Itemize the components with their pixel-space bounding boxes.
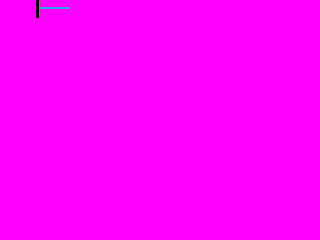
cursor edge tick lower [39,12,40,15]
cursor edge tick upper [39,2,40,5]
cursor edge tick middle [39,6,40,11]
playhead cursor bar [36,0,39,18]
blue timeline stripe [40,7,70,9]
